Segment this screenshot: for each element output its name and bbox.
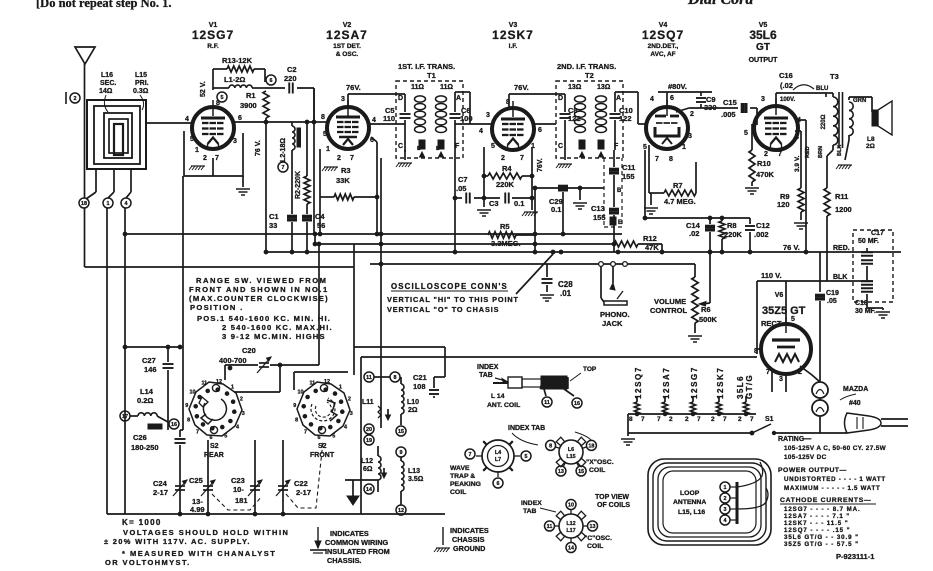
node circled 1 [103, 198, 113, 208]
svg-text:35L6: 35L6 [749, 28, 777, 42]
svg-text:TAB: TAB [479, 372, 493, 379]
ground under R10 [751, 182, 753, 186]
tube V4 12SQ7 [646, 107, 688, 149]
svg-text:6: 6 [238, 115, 242, 122]
svg-text:4.7 MEG.: 4.7 MEG. [664, 197, 696, 206]
svg-text:* MEASURED WITH CHANALYST: * MEASURED WITH CHANALYST [122, 549, 276, 558]
svg-text:3: 3 [486, 112, 490, 119]
svg-text:F: F [455, 143, 460, 150]
svg-text:15: 15 [398, 429, 404, 435]
capacitor C1 33 [291, 212, 293, 214]
capacitor C8 122 [560, 113, 571, 115]
svg-text:8: 8 [629, 416, 633, 423]
T1 ground [404, 150, 406, 160]
svg-text:16: 16 [574, 401, 580, 407]
resistor R7 4.7MEG [648, 145, 650, 193]
capacitor C17 50MF box [853, 230, 893, 302]
svg-text:2: 2 [724, 496, 727, 502]
svg-text:7: 7 [469, 452, 472, 458]
capacitor C13 155 [610, 208, 619, 210]
svg-text:7: 7 [350, 155, 354, 162]
node circled 2 antenna [65, 92, 67, 104]
svg-text:1: 1 [107, 201, 110, 207]
svg-text:L2-18Ω: L2-18Ω [280, 138, 287, 162]
svg-text:C1: C1 [269, 212, 279, 221]
svg-text:4: 4 [479, 128, 483, 135]
node circled 20 [364, 424, 374, 434]
svg-text:35Z5 GT/G - - 57.5 ": 35Z5 GT/G - - 57.5 " [784, 541, 859, 548]
svg-text:11: 11 [547, 524, 553, 530]
svg-text:4: 4 [372, 117, 376, 124]
capacitor C12 .002 [749, 218, 751, 224]
resistor R2-220K [306, 122, 308, 176]
svg-text:F: F [614, 143, 619, 150]
svg-text:T3: T3 [830, 72, 839, 81]
svg-text:13: 13 [558, 469, 564, 475]
svg-text:S1: S1 [765, 416, 774, 423]
svg-text:1: 1 [231, 385, 234, 391]
ground under C7-C3 junction [483, 198, 485, 207]
svg-text:3: 3 [779, 376, 783, 383]
svg-text:L6: L6 [568, 447, 574, 453]
svg-text:8: 8 [795, 134, 799, 141]
svg-text:D: D [558, 95, 563, 102]
svg-text:12: 12 [398, 508, 404, 514]
svg-text:L15, L16: L15, L16 [678, 509, 705, 516]
svg-text:122: 122 [619, 114, 632, 123]
svg-text:1: 1 [326, 146, 330, 153]
svg-text:4.99: 4.99 [190, 505, 205, 514]
ground under R6 [688, 335, 702, 337]
svg-text:BRN: BRN [818, 146, 824, 158]
node circled 11b [364, 372, 374, 382]
resistor R8 220K [721, 218, 723, 221]
svg-text:12SG7: 12SG7 [192, 28, 234, 42]
svg-text:105-125V DC: 105-125V DC [784, 454, 827, 461]
wire to S2 front pin11 [293, 372, 295, 390]
ground under R7 [650, 193, 652, 205]
oscilloscope pointer [516, 254, 553, 294]
svg-text:7: 7 [655, 156, 659, 163]
ground under V3 pin1 column [524, 211, 538, 213]
svg-text:GRN: GRN [853, 98, 866, 104]
svg-text:7: 7 [778, 151, 782, 158]
svg-text:12SK7: 12SK7 [716, 367, 725, 399]
svg-text:C25: C25 [189, 476, 203, 485]
svg-text:18: 18 [81, 201, 87, 207]
T2 B terminals [579, 140, 585, 149]
svg-text:7: 7 [641, 416, 645, 423]
wire V1 screen down [313, 88, 315, 234]
svg-text:C17: C17 [871, 230, 884, 237]
svg-text:PEAKING: PEAKING [450, 481, 481, 488]
svg-text:5: 5 [791, 316, 795, 323]
svg-text:12: 12 [216, 379, 222, 385]
svg-text:#80V.: #80V. [668, 82, 687, 91]
ground V1 grid return [242, 176, 244, 187]
T2 primary winding [575, 96, 586, 102]
svg-text:K= 1000: K= 1000 [122, 518, 162, 527]
svg-text:CHASSIS: CHASSIS [452, 535, 485, 544]
capacitor C11 155 [613, 150, 615, 167]
svg-text:4: 4 [344, 425, 347, 431]
svg-text:4: 4 [185, 116, 189, 123]
svg-text:PHONO.: PHONO. [600, 310, 630, 319]
svg-text:220Ω: 220Ω [821, 114, 827, 129]
rotary switch S2 front [297, 382, 350, 436]
wire V2 grid link [314, 121, 327, 123]
svg-text:6: 6 [210, 435, 213, 441]
svg-text:R3: R3 [341, 166, 351, 175]
svg-text:2 540-1600 KC. MAX.HI.: 2 540-1600 KC. MAX.HI. [222, 323, 333, 332]
svg-text:3: 3 [242, 411, 245, 417]
svg-text:3.9 V.: 3.9 V. [794, 155, 801, 172]
svg-text:2: 2 [764, 151, 768, 158]
svg-text:155: 155 [622, 172, 635, 181]
svg-text:C22: C22 [294, 479, 308, 488]
svg-text:3: 3 [688, 133, 692, 140]
svg-text:7: 7 [196, 430, 199, 436]
svg-text:C19: C19 [826, 290, 839, 297]
svg-text:INSULATED FROM: INSULATED FROM [325, 547, 390, 556]
svg-text:35L6: 35L6 [736, 375, 745, 399]
svg-text:76V.: 76V. [346, 83, 361, 92]
svg-text:2ND. I.F. TRANS.: 2ND. I.F. TRANS. [557, 62, 616, 71]
plug prongs [881, 418, 908, 420]
svg-text:3: 3 [761, 96, 765, 103]
svg-text:11: 11 [309, 381, 315, 387]
svg-text:5: 5 [224, 433, 227, 439]
ground under V2 pins [324, 166, 338, 168]
svg-text:INDICATES: INDICATES [330, 529, 369, 538]
svg-text:C: C [398, 143, 403, 150]
svg-text:INDICATES: INDICATES [450, 526, 489, 535]
svg-text:56: 56 [317, 221, 325, 230]
svg-text:7: 7 [282, 165, 285, 171]
svg-text:C24: C24 [153, 479, 168, 488]
coil L10 2ohm [400, 377, 402, 384]
node circled 19 [364, 435, 374, 445]
svg-text:52 V.: 52 V. [200, 81, 207, 97]
svg-text:L17: L17 [566, 528, 575, 534]
ground under V1 pins [191, 165, 205, 167]
svg-text:C23: C23 [231, 476, 245, 485]
svg-text:108: 108 [413, 382, 426, 391]
switch S1 [752, 424, 771, 433]
node circled 8b [390, 372, 400, 382]
svg-text:6: 6 [670, 95, 674, 102]
volume wiper from C14 column [709, 252, 711, 303]
svg-text:4: 4 [650, 96, 654, 103]
svg-text:105-125V A C, 50-60 CY. 27.5W: 105-125V A C, 50-60 CY. 27.5W [784, 445, 887, 452]
svg-text:VOLUME: VOLUME [654, 297, 686, 306]
svg-text:RED.: RED. [833, 245, 850, 252]
svg-text:3.5Ω: 3.5Ω [408, 476, 424, 483]
svg-text:B: B [436, 146, 440, 152]
svg-text:2Ω: 2Ω [408, 407, 418, 414]
svg-text:VERTICAL "O" TO CHASIS: VERTICAL "O" TO CHASIS [387, 305, 499, 314]
svg-text:100V.: 100V. [780, 97, 795, 103]
svg-text:3: 3 [233, 138, 237, 145]
svg-text:OSCILLOSCOPE CONN'S: OSCILLOSCOPE CONN'S [391, 282, 508, 291]
svg-text:L12: L12 [361, 458, 373, 465]
bus B+ 76V horizontal [265, 251, 901, 253]
svg-text:11: 11 [544, 400, 550, 406]
antenna [75, 47, 95, 64]
svg-text:33K: 33K [336, 176, 350, 185]
svg-text:3: 3 [724, 507, 727, 513]
T1 B terminals [419, 140, 425, 149]
wire left horizontal y347 [125, 346, 182, 348]
svg-text:110 V.: 110 V. [761, 271, 782, 280]
svg-text:BLU: BLU [816, 86, 828, 92]
svg-text:6Ω: 6Ω [363, 466, 373, 473]
svg-text:CONTROL: CONTROL [650, 306, 687, 315]
svg-text:2ND.DET.,: 2ND.DET., [648, 43, 679, 50]
svg-text:220: 220 [284, 74, 297, 83]
svg-text:12SA7: 12SA7 [662, 367, 671, 399]
svg-text:8: 8 [394, 375, 397, 381]
T1 secondary winding [436, 96, 447, 102]
capacitor C4 56 [306, 212, 308, 214]
node circled 18 [79, 198, 89, 208]
resistor R12 47K [614, 241, 638, 247]
svg-text:PRI.: PRI. [135, 80, 149, 87]
svg-text:1: 1 [682, 144, 686, 151]
ant coil leads [544, 389, 546, 396]
wire V3 plate to T2 [534, 123, 556, 125]
svg-text:.01: .01 [560, 289, 572, 298]
bus AVC return horizontal [370, 263, 695, 265]
svg-text:"C"OSC.: "C"OSC. [584, 535, 612, 542]
node circled 7 [278, 162, 288, 172]
svg-text:.005: .005 [721, 110, 736, 119]
svg-text:35Z5 GT: 35Z5 GT [762, 305, 806, 317]
antenna coil L14 drawing [493, 382, 508, 384]
svg-text:9: 9 [185, 403, 188, 409]
svg-text:11Ω: 11Ω [411, 84, 424, 91]
svg-text:13Ω: 13Ω [568, 84, 582, 91]
wire V6 pin2 to lamp [800, 366, 820, 382]
T1 secondary to V3 grid [455, 91, 470, 93]
wire V2 cathode to bus [319, 197, 321, 234]
svg-text:C: C [558, 143, 563, 150]
svg-text:5: 5 [221, 95, 224, 101]
svg-text:VERTICAL "HI" TO THIS POINT: VERTICAL "HI" TO THIS POINT [387, 295, 519, 304]
loop terminal numbers [720, 482, 730, 492]
svg-text:2: 2 [685, 416, 689, 423]
junction dots bottom [178, 512, 182, 516]
svg-text:2: 2 [690, 111, 694, 118]
wire V1 cathode box to C26 column [182, 176, 184, 430]
svg-text:1: 1 [195, 147, 199, 154]
svg-text:33: 33 [269, 221, 277, 230]
resistor R13-12K [212, 69, 214, 90]
svg-text:TOP VIEW: TOP VIEW [595, 494, 629, 501]
svg-text:T1: T1 [427, 71, 436, 80]
svg-text:R12: R12 [643, 234, 657, 243]
svg-text:1200: 1200 [835, 205, 852, 214]
node circled 6 [266, 75, 276, 85]
capacitor C7 .05 [455, 197, 462, 199]
svg-text:C20: C20 [242, 346, 256, 355]
capacitor C10 122 [614, 92, 616, 112]
ground V1 cathode box [184, 131, 243, 176]
svg-text:L1-2Ω: L1-2Ω [224, 75, 245, 84]
T2 dashed extension [603, 158, 605, 227]
svg-text:1: 1 [531, 143, 535, 150]
ground heater bus [627, 433, 629, 436]
svg-text:2: 2 [798, 369, 802, 376]
svg-text:(MAX.COUNTER CLOCKWISE): (MAX.COUNTER CLOCKWISE) [189, 294, 329, 303]
wire V5 screen to bus [795, 119, 806, 121]
svg-text:R11: R11 [835, 192, 848, 201]
wire oscillator feed to bus [265, 122, 267, 252]
transformer T3 secondary [849, 102, 853, 136]
svg-text:R7: R7 [673, 181, 683, 190]
capacitor C26 180-250 [180, 429, 183, 431]
svg-text:76 V.: 76 V. [255, 140, 262, 156]
heater bus bottom S1 line [628, 432, 752, 434]
svg-text:180-250: 180-250 [131, 443, 159, 452]
wire left horizontal y267 [85, 266, 355, 268]
svg-text:3.3MEG.: 3.3MEG. [491, 239, 521, 248]
svg-text:12SA7 - - - - 7.1 ": 12SA7 - - - - 7.1 " [784, 513, 850, 520]
svg-text:2: 2 [348, 396, 351, 402]
svg-text:30 MF.: 30 MF. [855, 308, 876, 315]
tube V1 12SG7 [192, 107, 234, 149]
svg-text:GROUND: GROUND [453, 544, 485, 553]
svg-text:2: 2 [501, 155, 505, 162]
node circled 17 [120, 411, 130, 421]
coil L13 3.5ohm [396, 447, 406, 457]
svg-text:L 14: L 14 [491, 393, 505, 400]
svg-text:2: 2 [738, 416, 742, 423]
svg-text:7: 7 [304, 430, 307, 436]
svg-text:L8: L8 [867, 136, 875, 143]
svg-text:2: 2 [240, 396, 243, 402]
svg-text:C7: C7 [458, 175, 468, 184]
svg-text:C18: C18 [855, 300, 868, 307]
T2 secondary out [615, 91, 638, 93]
svg-text:.02: .02 [689, 229, 699, 238]
capacitor C14 .02 [709, 218, 711, 224]
svg-text:CATHODE CURRENTS—: CATHODE CURRENTS— [780, 497, 871, 504]
X osc coil view [559, 440, 583, 464]
svg-text:12SQ7: 12SQ7 [642, 28, 684, 42]
svg-text:POWER OUTPUT—: POWER OUTPUT— [778, 467, 847, 474]
capacitor C23 10-181 [254, 440, 256, 514]
svg-text:L16: L16 [101, 72, 113, 79]
svg-text:TOP: TOP [583, 366, 597, 373]
svg-text:7: 7 [750, 416, 754, 423]
svg-text:10: 10 [568, 503, 574, 509]
gang link dashed [212, 494, 262, 510]
svg-text:470K: 470K [756, 170, 775, 179]
svg-text:14: 14 [366, 487, 372, 493]
svg-text:C28: C28 [558, 280, 573, 289]
capacitor C19 .05 [819, 252, 821, 281]
svg-text:5: 5 [525, 454, 528, 460]
svg-text:8: 8 [549, 444, 552, 450]
tube V3 12SK7 [492, 108, 534, 150]
svg-text:7: 7 [657, 416, 661, 423]
loop antenna transformer L16 L15 [87, 100, 146, 169]
svg-text:2: 2 [711, 416, 715, 423]
svg-text:C21: C21 [413, 373, 427, 382]
svg-text:FRONT AND SHOWN IN NO.1: FRONT AND SHOWN IN NO.1 [189, 285, 329, 294]
svg-text:0.3Ω: 0.3Ω [133, 88, 149, 95]
svg-text:R13-12K: R13-12K [222, 56, 253, 65]
coil L12 6ohm [377, 446, 379, 456]
svg-text:R6: R6 [701, 305, 711, 314]
wire V4 AVC line [644, 150, 646, 218]
svg-text:2: 2 [669, 416, 673, 423]
bus left segment y234 [125, 233, 622, 235]
svg-text:500K: 500K [699, 315, 718, 324]
svg-text:UNDISTORTED - - - - 1 WATT: UNDISTORTED - - - - 1 WATT [784, 476, 886, 483]
capacitor C17 50MF [866, 248, 868, 252]
node circled 5 [217, 92, 227, 102]
svg-text:R.F.: R.F. [207, 43, 219, 50]
section divider at coils [354, 346, 445, 348]
svg-text:R8: R8 [727, 221, 737, 230]
capacitor C3 0.1 [504, 193, 506, 204]
svg-text:3: 3 [341, 96, 345, 103]
resistor R4 220K [483, 147, 485, 198]
ground right of C29 [579, 188, 581, 200]
capacitor C25 13-499 [207, 440, 209, 514]
transformer T3 primary [825, 93, 827, 97]
wire coil block top [374, 376, 390, 378]
capacitor C5 110 [400, 113, 411, 115]
svg-text:76V.: 76V. [514, 83, 529, 92]
svg-text:120: 120 [777, 200, 790, 209]
rotary switch S2 rear [189, 382, 242, 436]
svg-text:C26: C26 [133, 433, 147, 442]
svg-text:COIL: COIL [450, 489, 466, 496]
pilot lamp Mazda 40 [812, 382, 828, 398]
svg-text:WAVE: WAVE [450, 465, 470, 472]
svg-text:2: 2 [337, 155, 341, 162]
ground coil block [352, 480, 354, 496]
capacitor C15 .005 [676, 108, 689, 112]
svg-text:12SQ7 - - - - .15 ": 12SQ7 - - - - .15 " [784, 527, 850, 534]
svg-text:MAXIMUM - - - - - 1.5 WATT: MAXIMUM - - - - - 1.5 WATT [784, 485, 880, 492]
svg-text:GT: GT [756, 42, 770, 53]
svg-text:15: 15 [578, 469, 584, 475]
svg-text:5: 5 [190, 136, 194, 143]
svg-text:± 20% WITH 117V. AC. SUPPLY.: ± 20% WITH 117V. AC. SUPPLY. [104, 537, 251, 546]
note indicates common wiring [317, 527, 319, 548]
wire V4 plate supply [658, 91, 712, 93]
wire V5 plate to T3 [775, 93, 777, 106]
svg-text:POS.1 540-1600 KC. MIN. HI.: POS.1 540-1600 KC. MIN. HI. [197, 314, 331, 323]
capacitor C2 220 [265, 87, 285, 89]
note indicates chassis ground [442, 527, 444, 545]
svg-text:L12: L12 [566, 521, 575, 527]
svg-text:C11: C11 [622, 163, 635, 172]
svg-text:6: 6 [270, 78, 273, 84]
coil L2-18ohm [291, 122, 293, 126]
T1 left wire [404, 94, 406, 112]
svg-text:7: 7 [215, 155, 219, 162]
wire V1 grid from antenna [146, 122, 192, 124]
wire lamp to S1 bus [819, 416, 821, 433]
svg-text:13Ω: 13Ω [597, 84, 611, 91]
svg-text:C3: C3 [489, 199, 499, 208]
wave trap coil view [482, 440, 514, 472]
